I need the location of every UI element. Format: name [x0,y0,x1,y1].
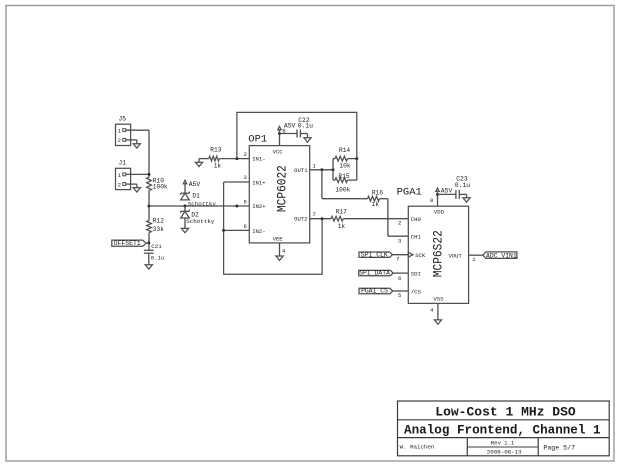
node J1 junction [148,173,151,176]
svg-text:CH0: CH0 [411,216,422,223]
wire VCC to C22 [280,133,298,135]
svg-text:A5V: A5V [189,181,201,188]
svg-text:A5V: A5V [284,122,296,129]
svg-text:1k: 1k [372,201,380,208]
ground at C23 [463,198,470,202]
title block row line 1 [398,419,610,421]
svg-text:OUT1: OUT1 [294,167,308,174]
wire input column top [148,130,150,177]
svg-text:100k: 100k [153,183,168,190]
wire R12 to C21 [148,233,150,251]
wire J5 pin1 to node [126,129,149,131]
svg-text:SPI_DATA: SPI_DATA [359,270,390,277]
svg-text:1k: 1k [338,223,346,230]
ground at C22 [304,138,311,142]
resistor R15 [333,179,335,181]
node OUT2 [321,217,324,220]
wire SPI_DATA to SDI [393,272,408,274]
node OFFSET1 junction [147,241,150,244]
wire C22 to ground [300,133,307,135]
capacitor C22 [296,130,298,138]
node OUT1 [320,168,323,171]
svg-text:ADC_VIN1: ADC_VIN1 [486,252,517,259]
wire R10 to R12 [148,191,150,221]
wire OUT2 feedback loop [224,182,323,274]
svg-text:2: 2 [118,137,121,144]
wire VSS pin 4 to ground [437,303,439,320]
title block row line 2 [398,437,610,439]
svg-text:MCP6022: MCP6022 [275,165,289,212]
svg-text:J1: J1 [119,160,127,167]
svg-text:PGA1: PGA1 [397,186,422,198]
svg-text:MCP6S22: MCP6S22 [431,230,445,277]
svg-text:IN2-: IN2- [252,228,265,235]
svg-text:VCC: VCC [273,148,284,155]
connector J1 [116,168,131,189]
resistor R17 [331,216,343,221]
svg-text:33k: 33k [153,226,164,233]
svg-text:VSS: VSS [434,296,445,303]
svg-text:OUT2: OUT2 [294,216,307,223]
power symbol A5V at VCC [278,126,281,129]
wire VOUT pin 1 [469,254,483,256]
wire VDD to C23 [438,193,456,195]
resistor R13 [209,156,219,161]
svg-text:3: 3 [243,174,246,181]
wire R17 to CH0 [343,218,408,220]
svg-text:IN1+: IN1+ [252,179,266,186]
svg-text:100k: 100k [335,186,350,193]
svg-text:VOUT: VOUT [448,252,462,259]
resistor R16 [368,196,380,201]
resistor R12 [147,221,152,233]
svg-text:8: 8 [430,197,433,204]
svg-text:Page 5/7: Page 5/7 [543,445,575,452]
net label SPI_CLK [359,252,392,257]
node VCC [278,132,281,135]
svg-text:IN2+: IN2+ [252,203,266,210]
svg-text:VDD: VDD [434,209,445,216]
wire J5 pin2 to ground [126,139,137,141]
svg-text:/CS: /CS [411,288,422,295]
svg-text:R12: R12 [153,218,164,225]
node IN1- junction [235,157,238,160]
svg-text:C21: C21 [151,243,162,250]
svg-text:SCK: SCK [415,252,426,259]
svg-text:6: 6 [398,275,401,282]
svg-text:Schottky: Schottky [188,201,217,208]
wire OUT2 [310,218,331,220]
wire VEE pin 4 to ground [279,243,281,256]
net label PGA1_CS [359,288,393,293]
node R14 R15 left [332,168,335,171]
svg-text:OFFSET1: OFFSET1 [114,240,141,247]
node R14 R15 right [355,157,358,160]
ground at R13 [195,162,202,166]
node VDD [436,193,439,196]
svg-text:VEE: VEE [273,236,284,243]
svg-text:R17: R17 [336,208,347,215]
wire R14R15 right bracket [356,159,358,181]
wire to IN1+ pin 3 [224,181,250,183]
diode D1 Schottky [181,192,190,194]
svg-text:7: 7 [396,255,399,262]
svg-text:2: 2 [243,151,246,158]
svg-text:2: 2 [118,181,121,188]
svg-text:R16: R16 [372,190,383,197]
node IN2- junction [222,229,225,232]
wire R14R15 left bracket [332,159,334,181]
ground at J1 pin2 [133,188,140,192]
title block column line right [537,438,539,456]
node diode junction [184,205,187,208]
svg-text:SPI_CLK: SPI_CLK [361,251,388,258]
resistor R10 [147,177,152,190]
net label SPI_DATA [359,270,393,275]
svg-text:7: 7 [312,211,315,218]
svg-text:0.1u: 0.1u [298,122,314,129]
svg-text:0.1u: 0.1u [455,182,471,189]
svg-text:R13: R13 [210,147,221,154]
svg-text:PGA1_CS: PGA1_CS [361,288,388,295]
wire input to D2 [184,206,186,211]
wire OUT1 [310,169,333,171]
svg-text:3: 3 [398,238,401,245]
capacitor C23 [455,190,457,199]
wire to IN2- pin 6 [224,229,250,231]
wire VDD pin 8 [437,194,439,206]
wire D2 to ground [184,218,186,228]
node IN2+ junction [235,205,238,208]
svg-text:OP1: OP1 [248,133,267,145]
wire PGA1_CS to /CS [393,290,409,292]
ground below D2 [181,228,188,232]
net label ADC_VIN1 [483,252,517,259]
svg-text:Analog Frontend, Channel 1: Analog Frontend, Channel 1 [404,424,601,438]
wire A5V to D1 [184,184,186,194]
capacitor C21 [144,249,154,251]
svg-text:2008-08-13: 2008-08-13 [487,448,522,455]
diode D2 Schottky [181,210,190,212]
svg-text:0.1u: 0.1u [151,254,165,261]
wire ground to R13 [199,158,209,160]
svg-text:IN1-: IN1- [252,156,265,163]
svg-text:Schottky: Schottky [186,218,215,225]
node input tee [148,205,151,208]
title block column line left [466,438,468,456]
power symbol A5V at D1 [183,180,186,184]
ground at VEE [276,256,283,260]
net label OFFSET1 [112,240,146,246]
ground at VSS [434,320,441,324]
wire SPI_CLK to SCK [392,254,408,256]
resistor R14 [333,158,335,160]
wire J1 pin1 to node [126,173,149,175]
wire OFFSET1 to node [146,242,149,244]
wire J1 pin2 to ground [126,183,137,185]
wire input net to IN2+ [149,205,249,207]
svg-text:10k: 10k [339,163,350,170]
title block frame [398,401,610,456]
svg-text:2: 2 [398,220,401,227]
ground at J5 pin2 [133,144,140,148]
svg-text:SDI: SDI [411,271,421,278]
svg-text:Low-Cost 1 MHz DSO: Low-Cost 1 MHz DSO [435,405,576,420]
pga U PGA1 MCP6S22 body [408,206,468,303]
svg-text:R14: R14 [339,147,350,154]
title block rev-date line [467,446,538,448]
svg-text:5: 5 [398,292,401,299]
wire VCC pin 8 [279,134,281,146]
svg-text:W. Maichen: W. Maichen [400,444,435,451]
wire R16 to CH1 [380,198,388,200]
svg-text:D1: D1 [192,193,200,200]
svg-text:A5V: A5V [441,187,453,194]
svg-text:1k: 1k [214,163,222,170]
svg-text:J5: J5 [119,116,127,123]
op-amp U OP1 MCP6022 body [249,146,309,243]
svg-text:6: 6 [243,223,246,230]
wire C23 to ground [459,193,466,195]
wire R13 to IN1- [219,158,249,160]
svg-text:5: 5 [243,199,246,206]
wire C21 to ground [148,253,150,265]
svg-text:CH1: CH1 [411,234,422,241]
svg-text:R15: R15 [338,173,349,180]
power symbol A5V at VDD [436,188,439,192]
wire OUT1 down to R16 [321,170,323,199]
svg-text:Rev 1.1: Rev 1.1 [491,439,515,446]
clock marker at SCK [408,252,413,257]
ground below C21 [145,265,152,269]
connector J5 [116,124,131,145]
wire OUT1 feedback to IN1- [237,112,357,158]
